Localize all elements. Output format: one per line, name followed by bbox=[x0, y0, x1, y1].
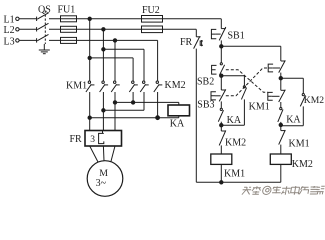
wire KM2 pole3 bottom bbox=[157, 92, 159, 118]
node L2 tap junction bbox=[102, 28, 105, 31]
wire node U to KA box bottom bbox=[90, 116, 179, 118]
contactor contact KM1 interlock NC bbox=[279, 130, 310, 150]
wire L1 crossover to KM2 pole1 bbox=[90, 58, 133, 81]
wire coil KM1 to bottom rail bbox=[220, 164, 222, 182]
svg-text:SB3: SB3 bbox=[197, 100, 214, 111]
svg-text:KM1: KM1 bbox=[249, 101, 270, 112]
svg-text:FU2: FU2 bbox=[142, 5, 160, 16]
wire KM2 pole2 bottom bbox=[143, 92, 145, 110]
wire bottom rail bbox=[196, 181, 280, 183]
coil KM2 bbox=[270, 154, 313, 170]
node L3 tap junction bbox=[113, 39, 116, 42]
thermal relay FR heater box bbox=[70, 131, 122, 147]
coil KM1 bbox=[211, 154, 245, 180]
node F junction bbox=[279, 123, 282, 126]
wire KM2 pole1 bottom bbox=[132, 92, 134, 102]
pushbutton SB3 NC contact bbox=[197, 89, 226, 110]
node L2-KM2 branch junction bbox=[102, 48, 105, 51]
node B junction below SB2 bbox=[220, 74, 223, 77]
wire SB2 to SB3 bbox=[220, 76, 222, 90]
svg-text:KM1: KM1 bbox=[224, 169, 245, 180]
wire KA to node C bbox=[220, 122, 222, 131]
svg-text:KA: KA bbox=[227, 115, 242, 126]
node C junction bbox=[220, 124, 223, 127]
contactor contact KM1 aux NO self-hold bbox=[241, 86, 269, 113]
svg-text:FR: FR bbox=[180, 37, 193, 48]
svg-text:QS: QS bbox=[38, 4, 51, 15]
svg-text:KM2: KM2 bbox=[225, 137, 246, 148]
wire node A to right branch bbox=[221, 46, 280, 61]
wire SB2 NC to KA right bbox=[280, 102, 282, 108]
fuse FU2 bbox=[142, 5, 163, 32]
svg-text:FU1: FU1 bbox=[58, 4, 76, 15]
node U output join bbox=[88, 116, 160, 120]
node V output join bbox=[102, 109, 105, 112]
wire KM1 pole3 bottom bbox=[114, 92, 116, 102]
watermark bbox=[242, 186, 325, 195]
motor M bbox=[87, 146, 123, 196]
wire KM1 pole2 bottom bbox=[102, 92, 104, 110]
wire W to FR bbox=[114, 102, 116, 130]
wire control feed from FU2-1 bbox=[220, 19, 222, 29]
wire KM1 aux to node C bbox=[221, 99, 244, 125]
wire KM2 aux to node F bbox=[281, 106, 304, 125]
svg-text:KM2: KM2 bbox=[304, 95, 324, 106]
wire L2 bus bbox=[19, 28, 196, 30]
node E junction bbox=[279, 77, 282, 80]
pushbutton SB3 NC in reverse branch bbox=[268, 60, 285, 72]
wire to node E bbox=[280, 73, 282, 91]
svg-text:KM2: KM2 bbox=[292, 159, 313, 170]
node L1 tap junction bbox=[88, 17, 91, 20]
switch QS bbox=[37, 4, 51, 44]
wire KM2 NC to coil KM1 bbox=[220, 145, 222, 154]
wire V to FR bbox=[102, 110, 104, 130]
wire SB1 to node A bbox=[220, 40, 222, 62]
relay KA coil box bbox=[168, 105, 190, 129]
node L3 bbox=[4, 36, 20, 47]
svg-text:L3: L3 bbox=[4, 36, 15, 47]
node L1-KM2 branch junction bbox=[88, 56, 91, 59]
svg-text:3: 3 bbox=[90, 135, 95, 145]
wire L2 crossover to KM2 pole2 bbox=[103, 49, 144, 81]
contactor KM1 main contacts bbox=[66, 81, 120, 92]
wire L1 dropper to KM1 pole1 bbox=[89, 19, 91, 81]
svg-text:SB1: SB1 bbox=[228, 31, 245, 42]
svg-text:KA: KA bbox=[170, 118, 185, 129]
svg-text:KM1: KM1 bbox=[289, 139, 310, 150]
node D junction on bottom rail bbox=[220, 181, 223, 184]
wire SB2 mechanical link dashed bbox=[226, 70, 268, 93]
svg-text:KM2: KM2 bbox=[165, 80, 186, 91]
wire node E to KM2 aux branch bbox=[281, 78, 304, 93]
svg-text:SB2: SB2 bbox=[197, 76, 214, 87]
relay contact KA right NO bbox=[278, 108, 302, 126]
pushbutton SB2 start contact NO bbox=[197, 63, 225, 88]
thermal relay FR NC contact bbox=[180, 29, 203, 48]
node L2 bbox=[4, 25, 20, 36]
wire L3 feed to KM2 pole3 bbox=[157, 40, 159, 81]
svg-text:FR: FR bbox=[70, 134, 83, 145]
watermark at-sign bbox=[262, 186, 272, 194]
wire KM1 NC to coil KM2 bbox=[280, 145, 282, 154]
wire coil KM2 to bottom rail bbox=[280, 164, 282, 182]
wire self-hold branch tap bbox=[221, 76, 244, 86]
wire FR return rail bbox=[195, 49, 197, 183]
wire L3 dropper to KM1 pole3 bbox=[114, 40, 116, 81]
wire node W to KA box top bbox=[115, 102, 179, 105]
pushbutton SB2 NC in reverse branch bbox=[268, 90, 286, 102]
wire L3 bus bbox=[19, 39, 158, 41]
node W output join bbox=[113, 101, 135, 104]
wire SB3 to KA contact bbox=[220, 101, 222, 108]
svg-text:3~: 3~ bbox=[96, 178, 107, 189]
node L1 bbox=[4, 15, 20, 26]
wire SB3 mechanical link dashed bbox=[226, 68, 268, 96]
wire U to FR bbox=[89, 118, 91, 131]
wire KM1 pole1 bottom bbox=[89, 92, 91, 118]
wire L1 bus bbox=[19, 18, 221, 20]
relay contact KA left NO bbox=[218, 108, 242, 126]
fuse FU1 bbox=[58, 4, 77, 43]
svg-text:KA: KA bbox=[286, 114, 301, 125]
contactor KM2 main contacts bbox=[129, 80, 185, 92]
node A junction below SB1 bbox=[220, 45, 223, 48]
contactor contact KM2 interlock NC bbox=[219, 130, 246, 148]
pushbutton SB1 stop bbox=[211, 27, 244, 42]
svg-text:KM1: KM1 bbox=[66, 81, 87, 92]
wire node V join bbox=[103, 109, 144, 111]
svg-text:L2: L2 bbox=[4, 25, 15, 36]
wire KA right to node F bbox=[280, 122, 282, 131]
svg-text:L1: L1 bbox=[4, 15, 15, 26]
ground bbox=[39, 44, 50, 54]
wire L2 dropper to KM1 pole2 bbox=[102, 29, 104, 81]
contactor contact KM2 aux NO bbox=[300, 94, 324, 107]
